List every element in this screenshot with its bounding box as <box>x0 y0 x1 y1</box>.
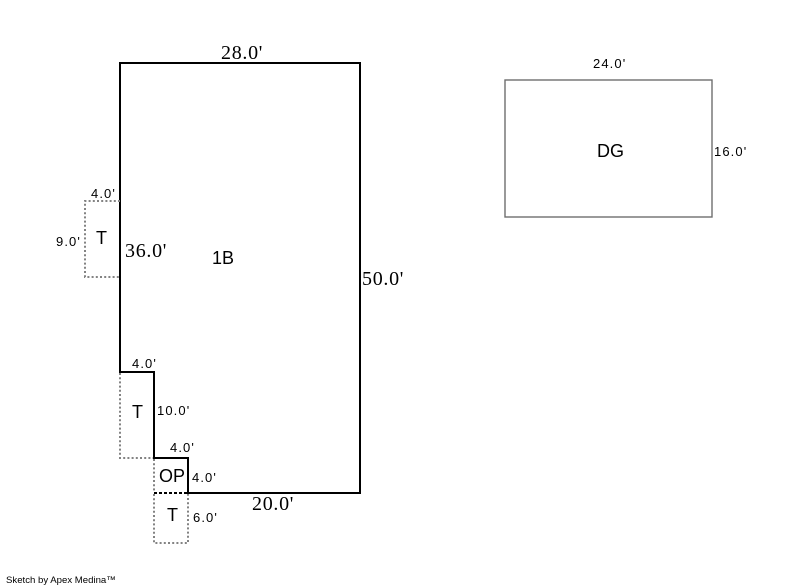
svg-text:16.0': 16.0' <box>714 144 747 159</box>
svg-text:36.0': 36.0' <box>125 240 167 262</box>
svg-text:24.0': 24.0' <box>593 56 626 71</box>
svg-text:T: T <box>96 228 107 248</box>
svg-text:50.0': 50.0' <box>362 268 404 290</box>
svg-text:DG: DG <box>597 141 624 161</box>
svg-text:6.0': 6.0' <box>193 510 218 525</box>
svg-text:10.0': 10.0' <box>157 403 190 418</box>
svg-text:9.0': 9.0' <box>56 234 81 249</box>
svg-text:T: T <box>132 402 143 422</box>
svg-text:T: T <box>167 505 178 525</box>
svg-text:20.0': 20.0' <box>252 493 294 515</box>
svg-text:4.0': 4.0' <box>192 470 217 485</box>
svg-text:4.0': 4.0' <box>91 186 116 201</box>
svg-text:28.0': 28.0' <box>221 42 263 64</box>
svg-text:OP: OP <box>159 466 185 486</box>
svg-text:1B: 1B <box>212 248 234 268</box>
svg-text:4.0': 4.0' <box>170 440 195 455</box>
svg-text:Sketch by Apex Medina™: Sketch by Apex Medina™ <box>6 575 116 586</box>
svg-text:4.0': 4.0' <box>132 356 157 371</box>
